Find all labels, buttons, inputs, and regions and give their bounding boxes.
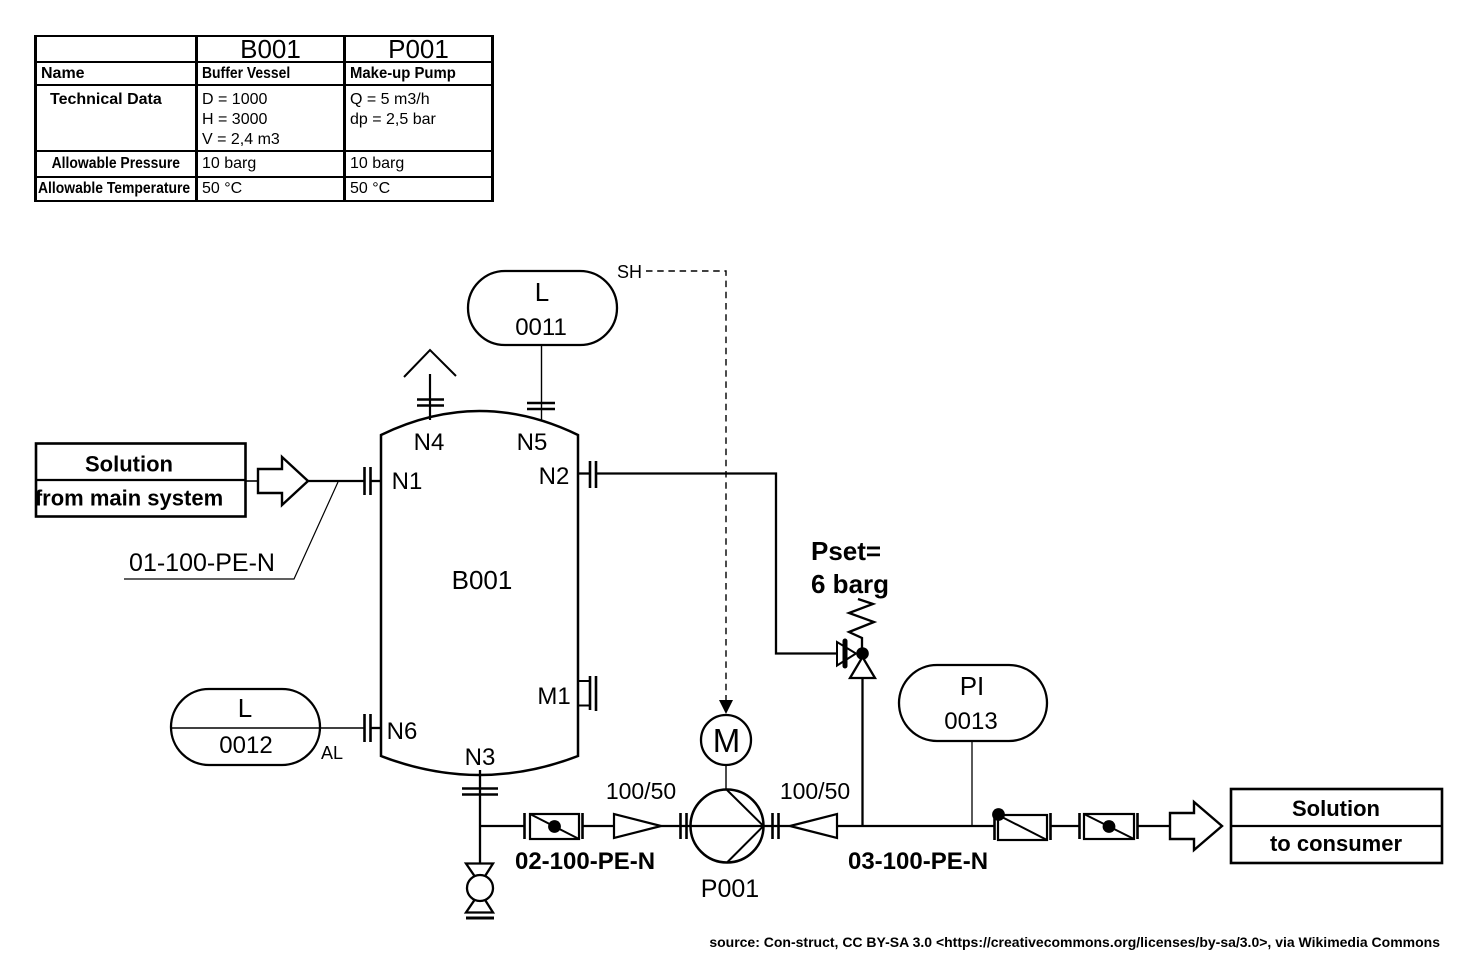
svg-text:Solution: Solution (1292, 796, 1380, 821)
recirculation pipe from N2 to relief valve (597, 474, 838, 654)
svg-text:0013: 0013 (944, 708, 997, 735)
svg-text:L: L (535, 277, 549, 307)
instrument bubble L 0011 (468, 271, 617, 345)
pipe between valves (1051, 825, 1079, 827)
svg-text:0012: 0012 (219, 732, 272, 759)
svg-text:to consumer: to consumer (1270, 831, 1402, 856)
svg-text:N2: N2 (539, 463, 570, 490)
motor stem (725, 765, 727, 791)
relief valve outlet pipe (861, 678, 863, 826)
svg-text:Pset=: Pset= (811, 536, 881, 566)
pipe reducer to check valve (837, 825, 994, 827)
nozzle N2 flange (578, 461, 596, 488)
svg-text:N1: N1 (392, 468, 423, 495)
flange at N6 (363, 714, 366, 742)
feed block arrow (258, 457, 308, 505)
instrument bubble PI 0013 (899, 665, 1047, 741)
svg-text:source: Con-struct, CC BY-SA 3: source: Con-struct, CC BY-SA 3.0 <https:… (709, 934, 1440, 950)
svg-text:PI: PI (960, 671, 985, 701)
pump suction flange (679, 813, 682, 839)
manhole M1 (537, 676, 596, 711)
equipment data table (34, 35, 494, 202)
SH arrowhead (719, 700, 733, 714)
svg-text:01-100-PE-N: 01-100-PE-N (129, 549, 275, 577)
svg-text:N3: N3 (465, 744, 496, 771)
suction reducer 100/50 (606, 778, 676, 838)
nozzle N5 (517, 345, 555, 456)
relief valve PSV (837, 599, 875, 678)
flange at N1 (363, 467, 366, 495)
svg-text:L: L (238, 693, 252, 723)
motor M circle (701, 715, 751, 765)
svg-text:N4: N4 (414, 429, 445, 456)
svg-text:B001: B001 (452, 565, 513, 595)
butterfly valve on 03 line (1080, 813, 1138, 839)
svg-text:AL: AL (321, 743, 343, 763)
consumer block arrow (1170, 802, 1222, 850)
wire box to feed arrow (246, 480, 259, 482)
svg-text:0011: 0011 (515, 314, 567, 341)
source box Solution from main system (35, 444, 246, 517)
butterfly valve on 02 line (525, 813, 583, 839)
svg-text:02-100-PE-N: 02-100-PE-N (515, 848, 655, 875)
svg-text:M: M (713, 722, 741, 759)
svg-text:SH: SH (617, 262, 642, 282)
svg-text:100/50: 100/50 (780, 778, 850, 804)
discharge reducer 100/50 (780, 778, 850, 838)
nozzle N4 with vent (404, 350, 456, 456)
instrument bubble L 0012 (171, 689, 320, 765)
svg-text:6 barg: 6 barg (811, 569, 889, 599)
svg-text:P001: P001 (701, 875, 759, 903)
nozzle N3 drop pipe (462, 744, 498, 864)
pipe label 01-100-PE-N with leader (124, 482, 338, 579)
pump discharge flange (771, 813, 774, 839)
svg-text:N5: N5 (517, 429, 548, 456)
wire L0012 to N6 (171, 727, 364, 729)
pipe N3 to valve (480, 825, 524, 827)
consumer box Solution to consumer (1231, 789, 1442, 863)
svg-text:03-100-PE-N: 03-100-PE-N (848, 848, 988, 875)
drain valve with cap (466, 864, 494, 919)
pipe valve to reducer (583, 825, 614, 827)
svg-text:N6: N6 (387, 718, 418, 745)
svg-text:Solution: Solution (85, 452, 173, 477)
vessel B001 (381, 411, 578, 775)
pipe through pump (661, 825, 790, 827)
pump P001 (691, 790, 764, 904)
label Pset 6 barg (811, 536, 889, 599)
PI stem (971, 741, 973, 826)
wire arrow to N1 flange (308, 480, 364, 482)
pipe valve to consumer arrow (1138, 825, 1170, 827)
svg-text:from main system: from main system (35, 486, 223, 511)
svg-text:M1: M1 (537, 683, 570, 710)
check valve on 03 line (992, 808, 1050, 840)
SH dashed signal line (646, 271, 726, 701)
svg-text:100/50: 100/50 (606, 778, 676, 804)
